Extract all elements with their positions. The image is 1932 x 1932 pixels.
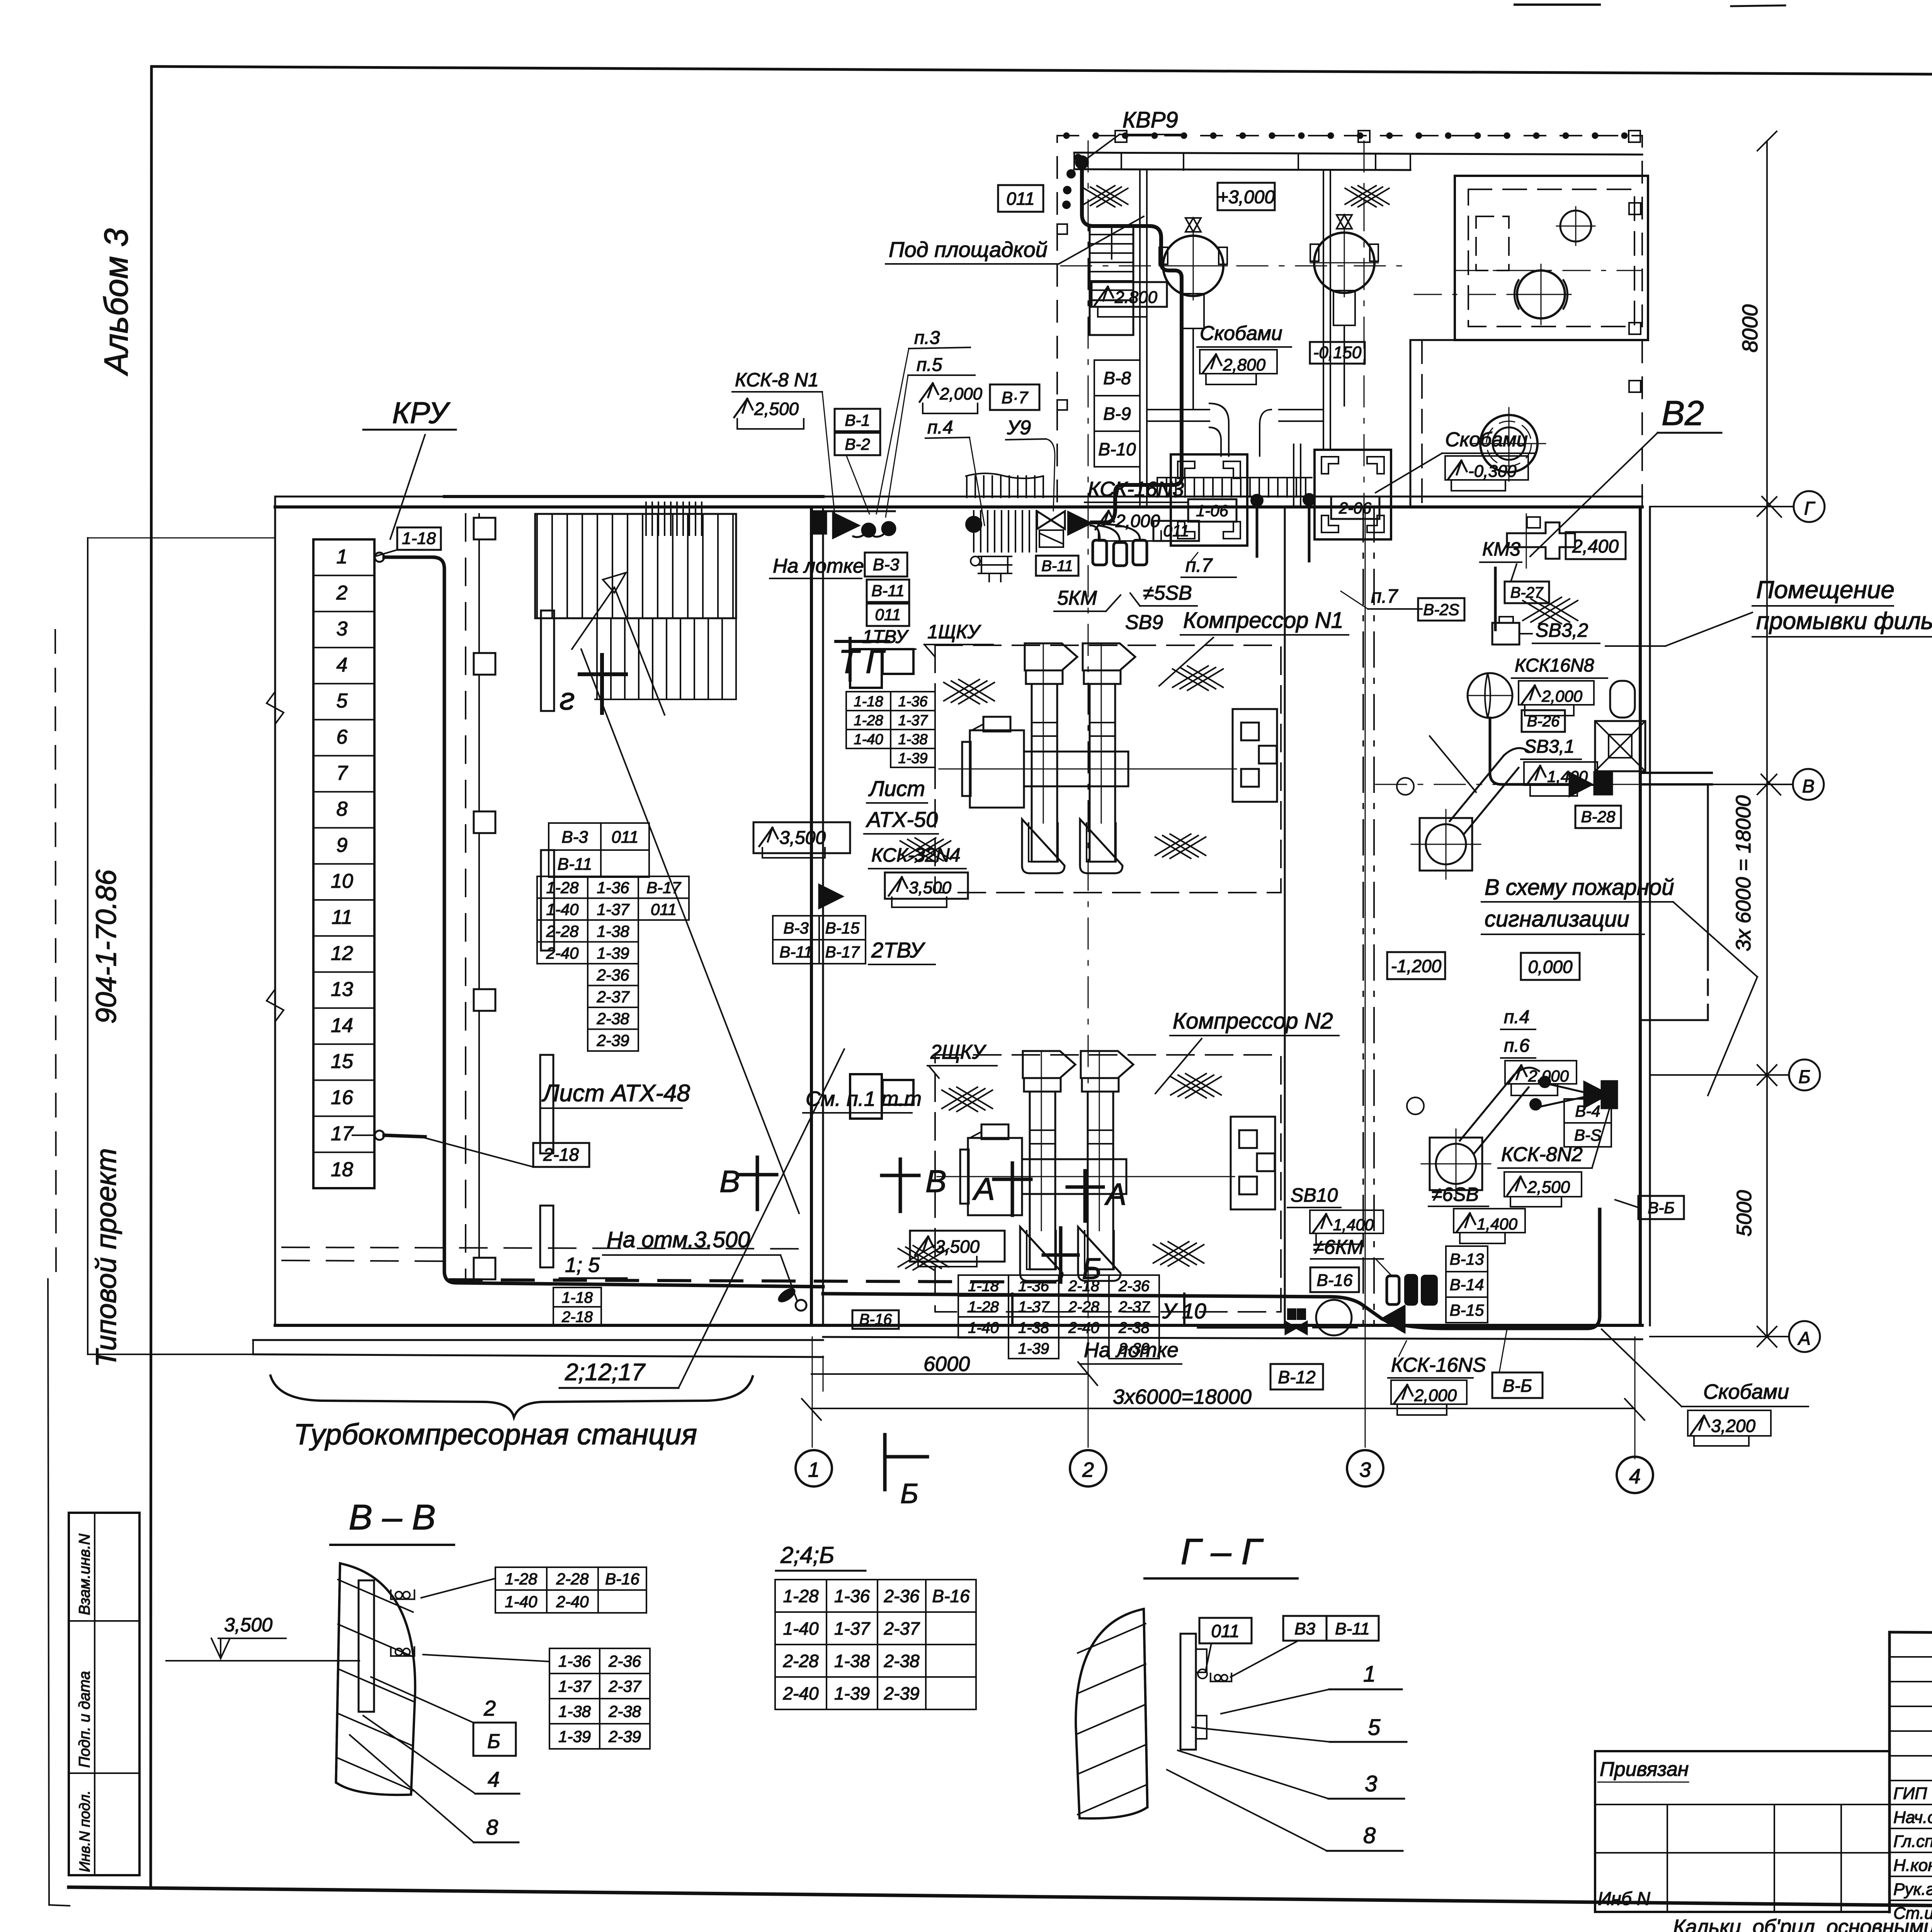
svg-text:1-38: 1-38 bbox=[1018, 1319, 1049, 1336]
main hall right wall bbox=[1639, 507, 1642, 1325]
svg-text:п.7: п.7 bbox=[1185, 554, 1213, 576]
axis V inner line bbox=[1376, 784, 1640, 785]
leader 2-12-17 bbox=[679, 1049, 844, 1388]
black fitting cluster bottom bbox=[1387, 1276, 1399, 1304]
svg-text:В-16: В-16 bbox=[605, 1570, 639, 1588]
svg-text:2-38: 2-38 bbox=[596, 1009, 629, 1027]
tray hatch right segment bbox=[1156, 478, 1158, 497]
svg-text:2-37: 2-37 bbox=[608, 1677, 642, 1696]
slender column 1 bbox=[541, 611, 554, 711]
label V-1 V-2 boxes bbox=[835, 409, 880, 431]
big circle lower room bbox=[1480, 415, 1537, 472]
svg-text:1-39: 1-39 bbox=[558, 1728, 591, 1746]
svg-text:промывки фильтров: промывки фильтров bbox=[1756, 608, 1932, 634]
svg-text:В-1: В-1 bbox=[845, 411, 870, 429]
svg-text:АТХ-50: АТХ-50 bbox=[866, 807, 938, 832]
svg-text:Б: Б bbox=[487, 1730, 500, 1753]
svg-text:Н.контр: Н.контр bbox=[1893, 1856, 1932, 1875]
svg-text:Рук.гр: Рук.гр bbox=[1893, 1880, 1932, 1899]
svg-text:1-38: 1-38 bbox=[558, 1702, 591, 1721]
svg-text:В-14: В-14 bbox=[1450, 1276, 1484, 1294]
label V-25 bbox=[1418, 598, 1464, 621]
wall triangle marker 1 bbox=[819, 885, 842, 908]
elev 3500 main bbox=[910, 1231, 1005, 1262]
svg-text:В-Б: В-Б bbox=[1503, 1376, 1532, 1396]
svg-text:1-06: 1-06 bbox=[1196, 502, 1229, 520]
svg-text:2-38: 2-38 bbox=[608, 1702, 641, 1721]
bottom cable drops bbox=[1011, 1294, 1014, 1325]
label -0150 bbox=[1310, 342, 1365, 364]
svg-text:8000: 8000 bbox=[1738, 304, 1762, 353]
svg-text:1-37: 1-37 bbox=[597, 900, 630, 918]
svg-text:В-S: В-S bbox=[1574, 1126, 1601, 1144]
section G-G cable pair bbox=[1211, 1681, 1231, 1682]
turbo trunk dashes bbox=[465, 514, 466, 1283]
svg-text:Под площадкой: Под площадкой bbox=[889, 237, 1048, 262]
svg-text:2;12;17: 2;12;17 bbox=[565, 1359, 646, 1386]
cabinet 1TVU bbox=[850, 649, 882, 688]
svg-text:КРУ: КРУ bbox=[392, 396, 451, 430]
sheet frame top border bbox=[151, 66, 1932, 78]
slender column 4 bbox=[540, 1206, 553, 1267]
top wall cable run wire bbox=[444, 495, 823, 498]
svg-text:2,500: 2,500 bbox=[1527, 1178, 1570, 1197]
svg-text:3,500: 3,500 bbox=[909, 878, 952, 897]
elbow pipes mid bbox=[1209, 403, 1229, 456]
svg-text:2: 2 bbox=[483, 1696, 496, 1720]
V-12 box bbox=[1270, 1364, 1323, 1389]
turbo hall bottom wall bbox=[275, 1324, 823, 1327]
svg-text:2-37: 2-37 bbox=[1118, 1298, 1150, 1315]
svg-text:2,000: 2,000 bbox=[1115, 511, 1160, 531]
svg-text:2,800: 2,800 bbox=[1223, 355, 1266, 374]
label 011 G-G bbox=[1199, 1618, 1252, 1643]
svg-text:011: 011 bbox=[611, 828, 638, 847]
label 011 top bbox=[998, 185, 1043, 212]
svg-text:3х6000=18000: 3х6000=18000 bbox=[1113, 1385, 1252, 1408]
axis G line and circle bbox=[1650, 506, 1794, 507]
svg-text:В-Б: В-Б bbox=[1648, 1199, 1674, 1217]
svg-text:1-37: 1-37 bbox=[1018, 1298, 1050, 1315]
svg-text:2-18: 2-18 bbox=[1068, 1277, 1100, 1294]
svg-text:1-36: 1-36 bbox=[558, 1652, 591, 1670]
svg-text:Подп. и дата: Подп. и дата bbox=[76, 1671, 93, 1768]
svg-text:2,000: 2,000 bbox=[1414, 1386, 1457, 1405]
svg-text:Г – Г: Г – Г bbox=[1181, 1531, 1264, 1572]
svg-text:КСК-8N2: КСК-8N2 bbox=[1501, 1143, 1583, 1166]
svg-text:2-28: 2-28 bbox=[556, 1570, 589, 1588]
svg-text:2-37: 2-37 bbox=[596, 988, 630, 1006]
fan unit upper bbox=[1420, 818, 1472, 871]
svg-text:8: 8 bbox=[337, 798, 348, 820]
svg-text:В-11: В-11 bbox=[558, 855, 592, 874]
platform stair bbox=[1090, 225, 1133, 300]
label V-11 wall box bbox=[1036, 556, 1078, 576]
svg-text:Лист АТХ-48: Лист АТХ-48 bbox=[541, 1080, 690, 1107]
svg-text:1-39: 1-39 bbox=[1018, 1340, 1049, 1357]
wall triangle marker 2 bbox=[1584, 1082, 1608, 1107]
svg-text:Нач.отд: Нач.отд bbox=[1893, 1808, 1932, 1827]
svg-text:2-39: 2-39 bbox=[608, 1728, 641, 1746]
table 1-18 1-36 etc bbox=[846, 692, 891, 711]
svg-text:1ЩКУ: 1ЩКУ bbox=[927, 621, 981, 643]
svg-text:1-40: 1-40 bbox=[546, 900, 579, 918]
svg-text:1-36: 1-36 bbox=[1018, 1277, 1049, 1294]
svg-text:1-18: 1-18 bbox=[968, 1277, 999, 1294]
svg-text:1-18: 1-18 bbox=[562, 1289, 593, 1306]
table 2-4-B bbox=[775, 1580, 827, 1612]
svg-text:1-28: 1-28 bbox=[546, 878, 579, 896]
svg-text:≠6SВ: ≠6SВ bbox=[1432, 1184, 1479, 1205]
slender column 2 bbox=[541, 850, 554, 951]
svg-text:SВ9: SВ9 bbox=[1125, 611, 1163, 634]
main hall left wall bbox=[810, 507, 813, 1325]
muffta symbols bbox=[1570, 773, 1592, 796]
svg-text:КСК-16NS: КСК-16NS bbox=[1391, 1354, 1486, 1376]
svg-text:В-13: В-13 bbox=[1450, 1250, 1484, 1268]
svg-text:011: 011 bbox=[651, 900, 677, 918]
hatch band turbo top bbox=[645, 502, 647, 535]
corridor lines right bbox=[1410, 340, 1412, 506]
svg-text:Компрессор N2: Компрессор N2 bbox=[1173, 1009, 1333, 1034]
table V-3 V-15 bbox=[773, 916, 819, 940]
compressor machine N2 bbox=[937, 1176, 1235, 1177]
svg-text:4: 4 bbox=[488, 1767, 500, 1791]
turbo hall apron line bbox=[253, 1354, 823, 1357]
stairs arrow bbox=[572, 587, 614, 649]
svg-text:п.4: п.4 bbox=[1504, 1007, 1529, 1027]
svg-text:Взам.инв.N: Взам.инв.N bbox=[76, 1534, 93, 1615]
KRU terminal row1 bbox=[375, 553, 384, 562]
G-G leader 1 bbox=[1221, 1689, 1329, 1714]
svg-text:1-40: 1-40 bbox=[854, 731, 883, 748]
svg-text:2-38: 2-38 bbox=[1118, 1319, 1150, 1336]
tank circle 2 bbox=[1314, 233, 1374, 293]
svg-text:011: 011 bbox=[875, 605, 901, 624]
KRU terminal row17 bbox=[375, 1131, 384, 1140]
svg-text:В-16: В-16 bbox=[859, 1311, 892, 1328]
label 011 box2 bbox=[867, 604, 909, 626]
label -1,200 box bbox=[1387, 952, 1445, 979]
svg-text:2: 2 bbox=[1082, 1458, 1094, 1481]
svg-text:9: 9 bbox=[337, 834, 348, 856]
svg-text:15: 15 bbox=[331, 1050, 354, 1073]
V-V lower leader bbox=[423, 1655, 549, 1662]
exhaust box X bbox=[1595, 721, 1645, 771]
svg-text:4: 4 bbox=[1629, 1465, 1641, 1488]
fan circle device bbox=[1468, 673, 1512, 718]
section V-V cable pair 1 bbox=[391, 1599, 414, 1600]
svg-text:+3,000: +3,000 bbox=[1218, 187, 1275, 207]
G-G leader 8 bbox=[1167, 1770, 1327, 1851]
svg-text:≠6КМ: ≠6КМ bbox=[1313, 1236, 1364, 1259]
svg-text:п.6: п.6 bbox=[1504, 1036, 1530, 1056]
cable blob top bbox=[1076, 156, 1088, 168]
svg-text:У9: У9 bbox=[1007, 417, 1031, 439]
svg-text:2.800: 2.800 bbox=[1114, 288, 1158, 307]
compressor room right wall bbox=[1284, 507, 1286, 1325]
svg-text:1-38: 1-38 bbox=[834, 1651, 870, 1671]
svg-text:На лотке: На лотке bbox=[773, 555, 864, 577]
title left small table bbox=[1595, 1751, 1889, 1912]
elev 2800 bbox=[1092, 282, 1167, 307]
svg-text:1-37: 1-37 bbox=[898, 713, 928, 729]
hatch star right bbox=[1345, 186, 1376, 204]
vertical dim 18000 rot bbox=[1766, 507, 1768, 1337]
V-16 box upper bbox=[1310, 1267, 1359, 1292]
svg-text:Скобами: Скобами bbox=[1200, 322, 1282, 345]
svg-text:1-36: 1-36 bbox=[898, 694, 928, 710]
filter unit 1 bbox=[1171, 454, 1247, 546]
svg-text:5КМ: 5КМ bbox=[1057, 587, 1097, 609]
platform axis line col3 bbox=[1364, 141, 1365, 506]
svg-text:3: 3 bbox=[1365, 1771, 1377, 1796]
column circle 2 bbox=[1070, 1450, 1106, 1486]
label V-26 bbox=[1522, 710, 1565, 732]
platform dashed outline bbox=[1057, 136, 1642, 506]
brace turbo station bbox=[270, 1376, 753, 1417]
svg-text:2-18: 2-18 bbox=[561, 1308, 593, 1325]
column axis lines bbox=[812, 1337, 813, 1447]
svg-text:В схему пожарной: В схему пожарной bbox=[1485, 875, 1674, 900]
section V-V column bbox=[336, 1563, 415, 1795]
wall black plugs bbox=[1037, 511, 1065, 529]
KRU switchgear table bbox=[313, 539, 374, 1188]
svg-text:2-40: 2-40 bbox=[782, 1684, 818, 1704]
svg-text:2-40: 2-40 bbox=[1068, 1319, 1099, 1336]
svg-text:SВ10: SВ10 bbox=[1291, 1184, 1338, 1206]
svg-text:1-38: 1-38 bbox=[898, 731, 927, 748]
svg-text:А: А bbox=[1797, 1328, 1811, 1349]
V-B box bottom bbox=[1492, 1372, 1543, 1398]
section mark B main bbox=[1059, 1228, 1063, 1282]
svg-text:Инв.N подл.: Инв.N подл. bbox=[77, 1790, 93, 1872]
svg-text:Г: Г bbox=[1804, 498, 1816, 519]
svg-text:1-28: 1-28 bbox=[505, 1570, 537, 1588]
main lower table bbox=[958, 1275, 1009, 1296]
washing room partition bbox=[1640, 772, 1712, 774]
upper right room circle big bbox=[1517, 270, 1565, 318]
svg-text:7: 7 bbox=[337, 762, 349, 784]
svg-text:1-28: 1-28 bbox=[968, 1298, 999, 1315]
sheet frame left border bbox=[151, 66, 151, 1887]
svg-text:В-10: В-10 bbox=[1098, 439, 1136, 459]
svg-text:2-39: 2-39 bbox=[596, 1031, 629, 1049]
svg-text:18: 18 bbox=[331, 1158, 353, 1181]
svg-text:В3: В3 bbox=[1294, 1619, 1315, 1638]
svg-text:КМ3: КМ3 bbox=[1482, 538, 1520, 560]
upper right room inner dashed bbox=[1468, 189, 1634, 327]
label V3 V-11 G-G bbox=[1283, 1616, 1327, 1641]
svg-text:Привязан: Привязан bbox=[1600, 1758, 1689, 1781]
svg-text:В-16: В-16 bbox=[1317, 1271, 1353, 1290]
elev 2000 p5 bbox=[920, 383, 938, 402]
svg-text:1-40: 1-40 bbox=[968, 1319, 999, 1336]
left margin outer line bbox=[48, 1279, 49, 1905]
svg-text:2,000: 2,000 bbox=[1541, 687, 1583, 705]
svg-text:ГИП: ГИП bbox=[1893, 1784, 1927, 1803]
svg-text:1: 1 bbox=[808, 1458, 820, 1481]
svg-text:У 10: У 10 bbox=[1162, 1299, 1206, 1323]
svg-text:Типовой проект: Типовой проект bbox=[90, 1148, 122, 1367]
G-G leader 3 bbox=[1178, 1750, 1328, 1799]
svg-text:п.7: п.7 bbox=[1371, 585, 1398, 607]
table V-3 011 bbox=[549, 823, 601, 850]
svg-text:Турбокомпресорная станция: Турбокомпресорная станция bbox=[294, 1418, 697, 1451]
radiator symbol bbox=[978, 556, 1012, 573]
svg-text:Помещение: Помещение bbox=[1756, 576, 1895, 604]
vertical dim 8000 bbox=[1766, 141, 1768, 507]
platform slab band bbox=[1074, 153, 1642, 155]
svg-text:В-9: В-9 bbox=[1103, 404, 1131, 424]
turbo hall diagonal wire bbox=[581, 649, 799, 1213]
svg-text:В-11: В-11 bbox=[779, 943, 813, 961]
svg-text:2-37: 2-37 bbox=[883, 1619, 920, 1639]
left margin dashed line bbox=[55, 630, 56, 1279]
label 011 wall box bbox=[1153, 521, 1199, 541]
svg-text:12: 12 bbox=[331, 942, 353, 964]
svg-text:Б: Б bbox=[1798, 1067, 1810, 1087]
axis3 dashed wall bbox=[1362, 507, 1364, 1325]
svg-text:5: 5 bbox=[1368, 1715, 1381, 1740]
svg-text:0,000: 0,000 bbox=[1528, 957, 1573, 977]
svg-text:п.3: п.3 bbox=[914, 328, 940, 348]
svg-text:6: 6 bbox=[337, 726, 348, 748]
svg-text:сигнализации: сигнализации bbox=[1485, 906, 1629, 932]
stairs upper flight bbox=[536, 514, 538, 618]
section G-G rail bbox=[1180, 1634, 1196, 1750]
axis line col2 inner bbox=[1088, 507, 1089, 1337]
svg-text:SВ3,2: SВ3,2 bbox=[1536, 619, 1588, 641]
svg-text:2-36: 2-36 bbox=[883, 1586, 919, 1606]
svg-text:2-40: 2-40 bbox=[546, 944, 579, 962]
compressor machine N1 bbox=[939, 769, 1236, 770]
svg-text:8: 8 bbox=[1363, 1823, 1376, 1848]
hatch cross right room bbox=[1523, 597, 1561, 621]
filter unit 2 bbox=[1315, 450, 1391, 539]
label 2-18 box bbox=[533, 1143, 589, 1167]
svg-text:1: 1 bbox=[1363, 1662, 1376, 1687]
svg-text:17: 17 bbox=[331, 1122, 354, 1145]
svg-text:На лотке: На лотке bbox=[1084, 1338, 1179, 1362]
svg-text:В – В: В – В bbox=[349, 1498, 435, 1537]
svg-text:В-11: В-11 bbox=[871, 582, 905, 600]
svg-text:КСК16N8: КСК16N8 bbox=[1515, 655, 1594, 676]
top edge trim dashes bbox=[1515, 3, 1600, 6]
label 1-18 box bbox=[397, 527, 441, 550]
svg-text:Б: Б bbox=[900, 1478, 918, 1509]
svg-text:КСК-8 N1: КСК-8 N1 bbox=[735, 369, 819, 391]
labels V-8 9 10 bbox=[1094, 360, 1140, 396]
svg-text:5: 5 bbox=[337, 690, 348, 712]
terminal dots p4 p6 bbox=[1539, 1077, 1550, 1087]
svg-text:1,400: 1,400 bbox=[1477, 1215, 1518, 1233]
V-V upper leader bbox=[421, 1578, 495, 1598]
svg-text:2-40: 2-40 bbox=[556, 1593, 589, 1611]
section mark G lower-left bbox=[580, 672, 626, 676]
svg-text:1-37: 1-37 bbox=[558, 1677, 592, 1696]
main hall bottom wall bbox=[823, 1324, 1642, 1327]
svg-text:8: 8 bbox=[486, 1815, 498, 1839]
svg-text:2ЩКУ: 2ЩКУ bbox=[930, 1041, 987, 1063]
svg-text:≠5SВ: ≠5SВ bbox=[1143, 582, 1192, 604]
bay1 dashed outline bbox=[935, 645, 1281, 893]
svg-text:п.4: п.4 bbox=[927, 417, 953, 438]
svg-text:1-39: 1-39 bbox=[834, 1684, 870, 1704]
main hall top wall bbox=[823, 496, 1642, 498]
svg-text:2,000: 2,000 bbox=[939, 384, 983, 403]
svg-text:2: 2 bbox=[336, 582, 348, 604]
svg-text:2-18: 2-18 bbox=[543, 1145, 579, 1165]
svg-text:2,400: 2,400 bbox=[1572, 536, 1619, 557]
svg-text:1-18: 1-18 bbox=[402, 529, 436, 548]
svg-text:В-27: В-27 bbox=[1510, 584, 1544, 601]
upper right room subrect bbox=[1476, 216, 1509, 270]
dim line 6000 bbox=[811, 1373, 1088, 1375]
riser dot 1 bbox=[1251, 495, 1263, 506]
svg-text:2ТВУ: 2ТВУ bbox=[871, 938, 926, 962]
svg-text:В: В bbox=[1802, 776, 1815, 797]
big cable table ATX-48 bbox=[537, 876, 588, 898]
svg-text:1; 5: 1; 5 bbox=[565, 1253, 600, 1277]
svg-text:г: г bbox=[560, 682, 575, 716]
svg-text:Кальки об'рил основными: Кальки об'рил основными bbox=[1673, 1915, 1932, 1932]
column circle 4 bbox=[1617, 1457, 1653, 1493]
label V-B right bbox=[1638, 1196, 1684, 1219]
svg-text:В-3: В-3 bbox=[561, 828, 588, 847]
svg-text:В-15: В-15 bbox=[825, 919, 860, 937]
svg-text:3: 3 bbox=[1359, 1458, 1371, 1481]
bottom cable main wire bbox=[823, 1209, 1600, 1328]
G-G leader 5 bbox=[1192, 1727, 1330, 1742]
oval vent bbox=[1610, 681, 1635, 718]
axis A line and circle bbox=[1650, 1336, 1789, 1337]
upper right room outer bbox=[1455, 176, 1648, 340]
svg-text:А: А bbox=[972, 1172, 995, 1207]
svg-text:-1,200: -1,200 bbox=[1391, 956, 1442, 976]
svg-text:п.5: п.5 bbox=[917, 355, 942, 375]
section cut B bottom bbox=[883, 1435, 887, 1490]
trench dashed cable bbox=[450, 1280, 1066, 1282]
svg-text:В-2S: В-2S bbox=[1423, 600, 1459, 619]
svg-text:2-38: 2-38 bbox=[883, 1651, 919, 1671]
svg-text:В-17: В-17 bbox=[825, 943, 860, 961]
svg-text:1-39: 1-39 bbox=[898, 750, 927, 767]
axis V line and circle bbox=[1650, 784, 1793, 785]
column circle 1 bbox=[796, 1450, 832, 1486]
V-16 box bottom bbox=[852, 1310, 899, 1329]
svg-text:1-18: 1-18 bbox=[854, 694, 883, 710]
svg-text:13: 13 bbox=[331, 978, 353, 1001]
label V-27 bbox=[1505, 582, 1549, 603]
svg-text:В-3: В-3 bbox=[783, 919, 808, 937]
svg-text:-0,150: -0,150 bbox=[1313, 343, 1362, 362]
svg-text:2-06: 2-06 bbox=[1338, 499, 1372, 517]
svg-text:1-40: 1-40 bbox=[505, 1593, 537, 1611]
svg-text:1,400: 1,400 bbox=[1333, 1216, 1374, 1234]
svg-text:3: 3 bbox=[337, 618, 348, 640]
svg-text:В-11: В-11 bbox=[1041, 558, 1073, 575]
svg-text:В·7: В·7 bbox=[1002, 388, 1029, 407]
svg-text:2,500: 2,500 bbox=[754, 399, 799, 419]
black dot corridor bbox=[966, 517, 981, 532]
table V-V upper bbox=[495, 1567, 547, 1590]
svg-text:1-38: 1-38 bbox=[597, 922, 629, 940]
axis B line and circle bbox=[1650, 1074, 1789, 1076]
label +3000 bbox=[1218, 183, 1275, 210]
title block grid bbox=[1889, 1632, 1932, 1638]
platform small squares bbox=[1115, 131, 1127, 142]
